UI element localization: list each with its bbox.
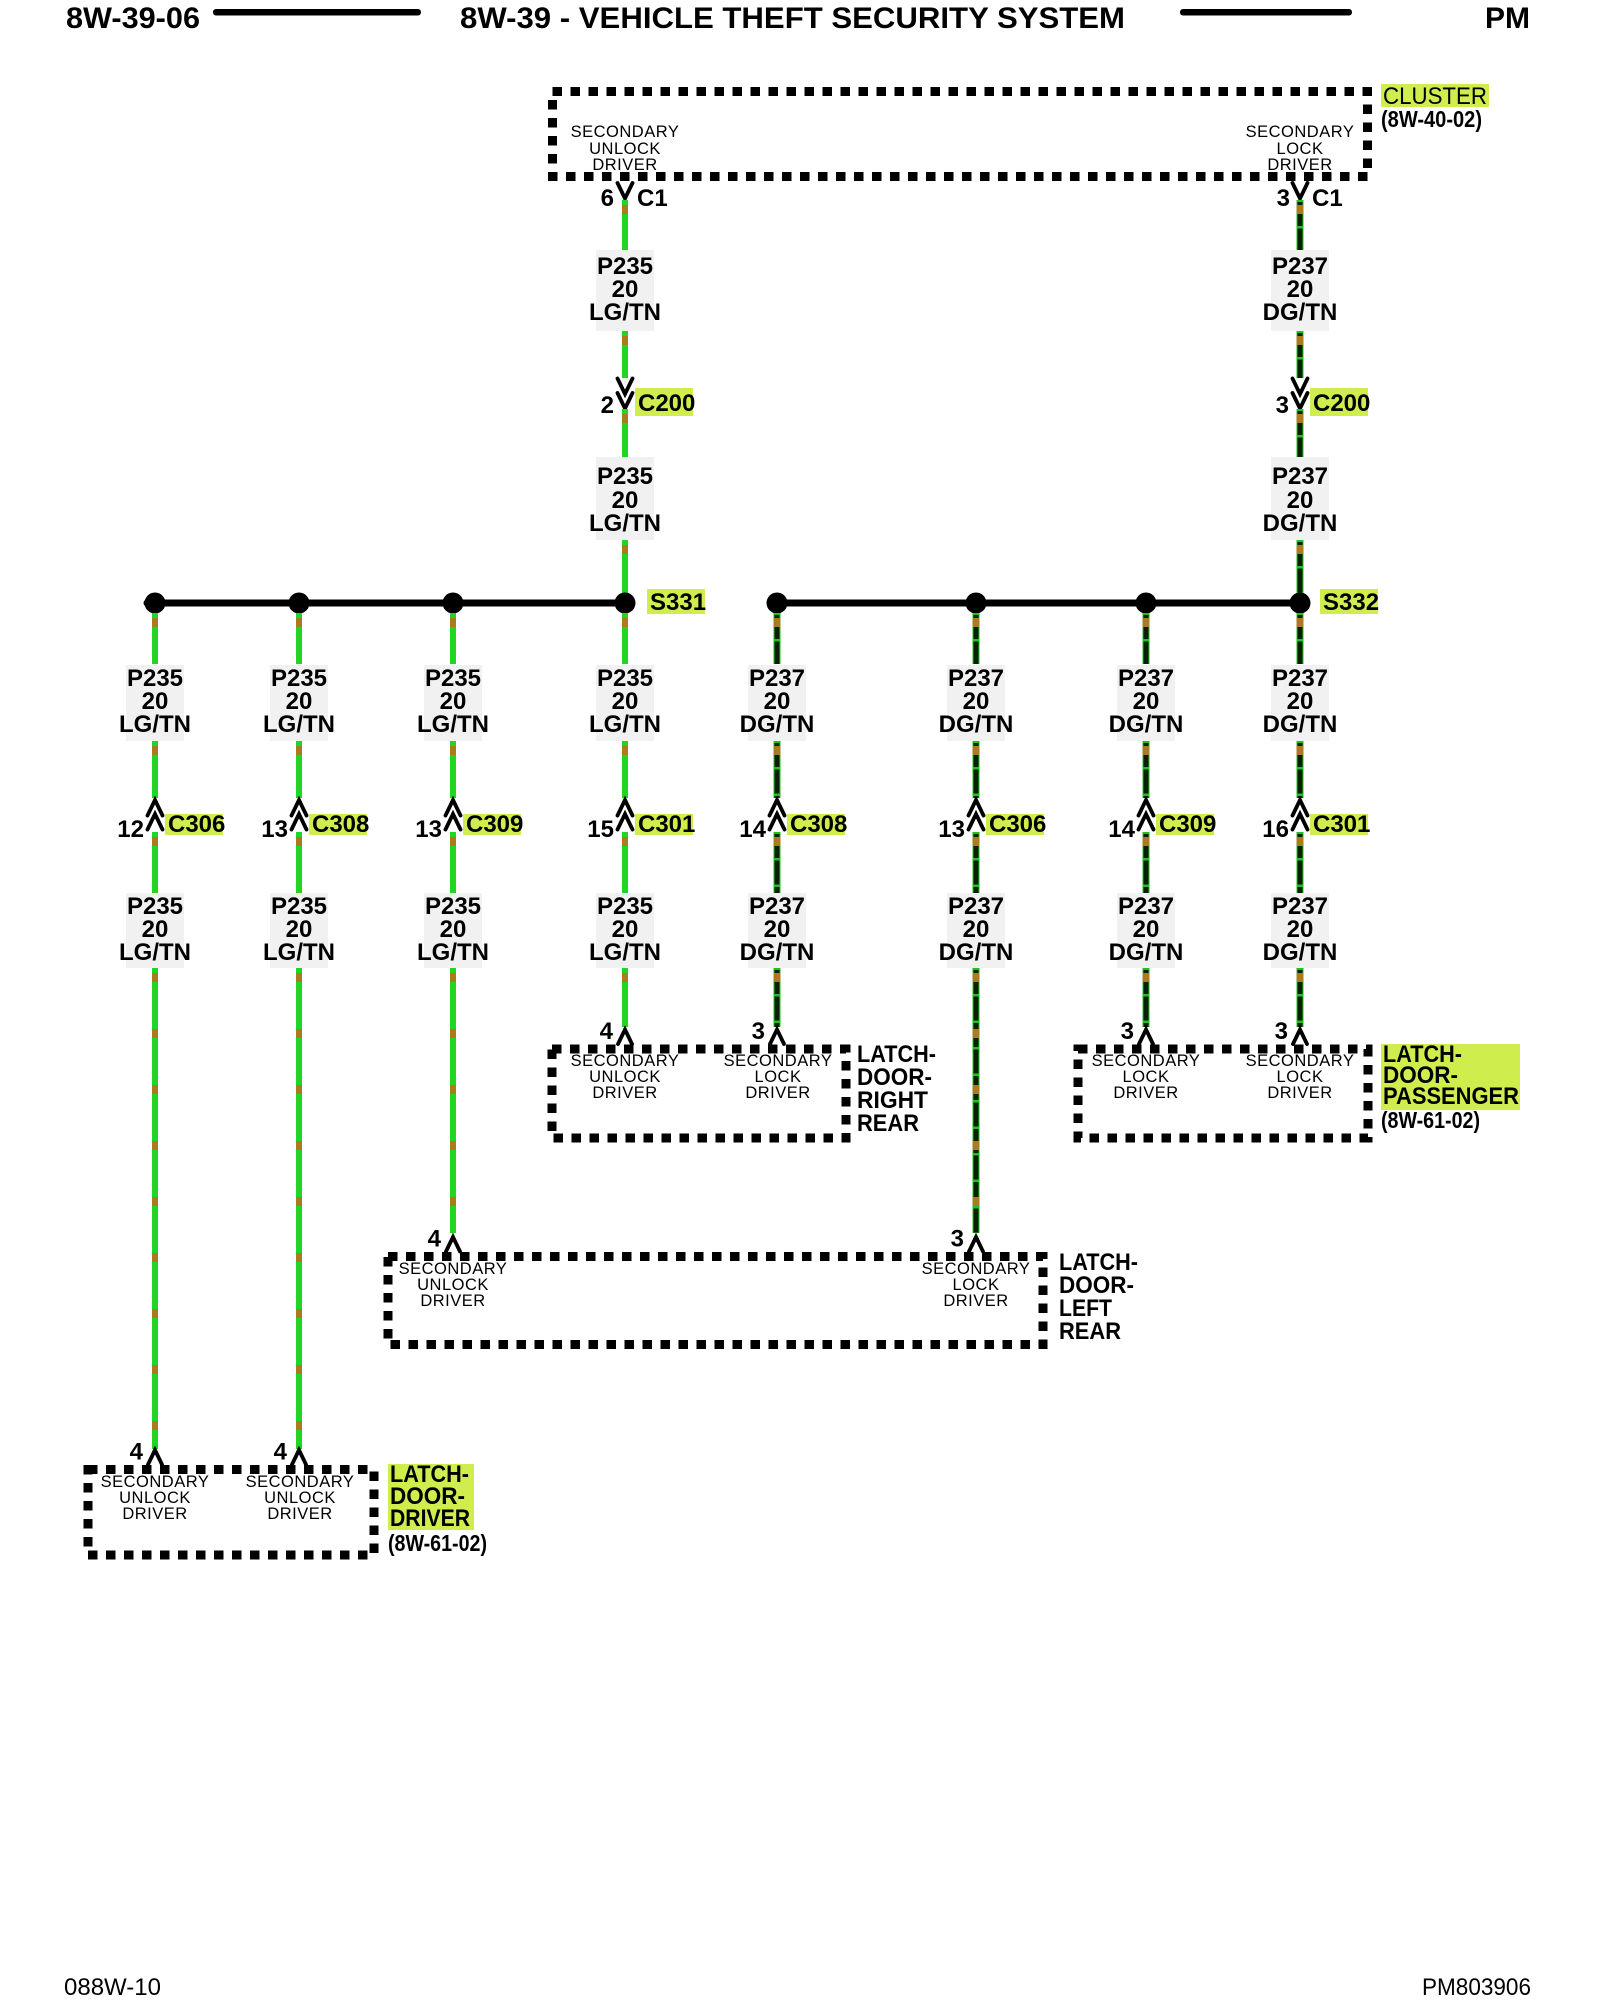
svg-text:LG/TN: LG/TN — [119, 939, 191, 966]
wire P235 drop 1 mid (LG/TN) — [152, 741, 158, 798]
in-line connector C308 pin 13 — [261, 800, 369, 843]
svg-text:DG/TN: DG/TN — [939, 939, 1014, 966]
wire label P237 20 DG/TN col5 (3) — [740, 665, 815, 741]
svg-text:LG/TN: LG/TN — [589, 939, 661, 966]
wire label P235 20 LG/TN col3 (3) — [417, 665, 489, 741]
svg-text:LG/TN: LG/TN — [263, 939, 335, 966]
svg-text:3: 3 — [1275, 1018, 1288, 1045]
wire label P235 20 LG/TN (2) — [589, 457, 661, 540]
svg-text:C309: C309 — [1159, 811, 1216, 838]
svg-text:SECONDARY: SECONDARY — [571, 123, 680, 141]
connector pin 3 into latch door passenger — [1275, 1018, 1307, 1045]
wire P237 drop 4 lower (DG/TN) — [1297, 832, 1304, 893]
in-line connector C306 pin 12 — [117, 800, 225, 843]
svg-text:LG/TN: LG/TN — [417, 939, 489, 966]
svg-text:2: 2 — [601, 392, 614, 419]
wire P235 drop 4 upper (LG/TN) — [622, 613, 628, 664]
connector pin 3 into latch door right rear — [752, 1018, 784, 1045]
svg-text:C301: C301 — [638, 811, 695, 838]
splice S331 — [145, 589, 707, 616]
connector pin 3 into latch door left rear — [951, 1226, 983, 1253]
svg-text:LG/TN: LG/TN — [417, 711, 489, 738]
svg-text:DRIVER: DRIVER — [592, 156, 657, 174]
wire label P235 20 LG/TN col4 (3) — [589, 665, 661, 741]
svg-text:C309: C309 — [466, 811, 523, 838]
wire P235 drop 4 mid (LG/TN) — [622, 741, 628, 798]
wire label P235 20 LG/TN col3 (4) — [417, 893, 489, 968]
wire P235 to C200 (LG/TN) — [622, 331, 628, 378]
connector C1 pin 6 — [601, 183, 668, 212]
box text lr secondary unlock driver — [399, 1260, 508, 1310]
svg-text:8W-39-06: 8W-39-06 — [66, 2, 200, 35]
connector pin 4 into latch door driver — [130, 1439, 162, 1466]
connector pin 4 into latch door driver — [274, 1439, 306, 1466]
LATCH-DOOR-RIGHT REAR box — [552, 1049, 846, 1138]
svg-text:REAR: REAR — [1059, 1318, 1121, 1345]
wire label P237 20 DG/TN col8 (3) — [1263, 665, 1338, 741]
label LATCH-DOOR-RIGHT REAR — [857, 1041, 936, 1137]
wire P237 drop 2 mid (DG/TN) — [973, 741, 980, 798]
wire P237 drop 3 upper (DG/TN) — [1143, 613, 1150, 664]
wire P235 drop 4 lower (LG/TN) — [622, 832, 628, 893]
wire label P237 20 DG/TN col7 (3) — [1109, 665, 1184, 741]
wire P235 drop 1 upper (LG/TN) — [152, 613, 158, 664]
svg-text:13: 13 — [938, 816, 965, 843]
wire label P237 20 DG/TN col6 (3) — [939, 665, 1014, 741]
box text cluster secondary unlock driver — [571, 123, 680, 174]
wire P237 tail to latch door left rear (DG/TN) — [973, 968, 980, 1233]
svg-text:DRIVER: DRIVER — [1113, 1084, 1178, 1102]
wire P237 drop 4 upper (DG/TN) — [1297, 613, 1304, 664]
wire label P235 20 LG/TN col1 (4) — [119, 893, 191, 968]
svg-text:13: 13 — [415, 816, 442, 843]
svg-text:3: 3 — [1276, 392, 1289, 419]
wire label P237 20 DG/TN (2) — [1263, 457, 1338, 540]
wire P235 from C200 (LG/TN) — [622, 409, 628, 457]
wire P235 tail to latch door left rear (LG/TN) — [450, 968, 456, 1233]
svg-text:(8W-61-02): (8W-61-02) — [388, 1530, 487, 1556]
wire P237 from C1 (DG/TN) — [1297, 200, 1304, 250]
svg-text:REAR: REAR — [857, 1110, 919, 1137]
svg-text:DRIVER: DRIVER — [390, 1505, 470, 1532]
wire P235 tail to latch door right rear (LG/TN) — [622, 968, 628, 1027]
wire P235 drop 3 lower (LG/TN) — [450, 832, 456, 893]
wire P237 drop 2 lower (DG/TN) — [973, 832, 980, 893]
svg-text:S332: S332 — [1323, 589, 1379, 616]
in-line connector C301 pin 15 — [587, 800, 695, 843]
LATCH-DOOR-PASSENGER box — [1078, 1049, 1368, 1138]
wire label P235 20 LG/TN (1) — [589, 250, 661, 331]
in-line connector C306 pin 13 — [938, 800, 1046, 843]
svg-text:C1: C1 — [637, 185, 668, 212]
wire P237 tail to latch door right rear (DG/TN) — [774, 968, 781, 1027]
connector pin 4 into latch door left rear — [428, 1226, 460, 1253]
module label CLUSTER — [1381, 83, 1489, 110]
svg-text:C1: C1 — [1312, 185, 1343, 212]
wire label P237 20 DG/TN col7 (4) — [1109, 893, 1184, 968]
wire P237 to C200 (DG/TN) — [1297, 331, 1304, 378]
LATCH-DOOR-DRIVER box — [88, 1470, 374, 1556]
svg-text:DG/TN: DG/TN — [740, 939, 815, 966]
svg-text:DG/TN: DG/TN — [939, 711, 1014, 738]
box text drv secondary unlock driver 1 — [101, 1473, 210, 1523]
svg-text:PM: PM — [1485, 2, 1530, 35]
svg-text:14: 14 — [1108, 816, 1135, 843]
box text rr secondary unlock driver — [571, 1052, 680, 1102]
wire P235 drop 1 lower (LG/TN) — [152, 832, 158, 893]
wire label P237 20 DG/TN col5 (4) — [740, 893, 815, 968]
svg-text:C301: C301 — [1313, 811, 1370, 838]
wire P237 drop 4 mid (DG/TN) — [1297, 741, 1304, 798]
svg-text:DG/TN: DG/TN — [1263, 711, 1338, 738]
in-line connector C309 pin 13 — [415, 800, 523, 843]
splice S332 — [767, 589, 1380, 616]
header rule right — [1180, 9, 1352, 16]
svg-text:C200: C200 — [1313, 390, 1370, 417]
wire P237 tail to latch door passenger (1) (DG/TN) — [1143, 968, 1150, 1027]
wire P235 drop 3 upper (LG/TN) — [450, 613, 456, 664]
svg-text:SECONDARY: SECONDARY — [1246, 123, 1355, 141]
svg-text:DRIVER: DRIVER — [420, 1292, 485, 1310]
wire P237 drop 3 mid (DG/TN) — [1143, 741, 1150, 798]
label LATCH-DOOR-DRIVER — [388, 1461, 474, 1532]
svg-text:DG/TN: DG/TN — [1263, 299, 1338, 326]
wire P237 drop 1 upper (DG/TN) — [774, 613, 781, 664]
wire P235 from C1 (LG/TN) — [622, 200, 628, 250]
svg-text:PM803906: PM803906 — [1422, 1974, 1531, 2000]
svg-text:LG/TN: LG/TN — [263, 711, 335, 738]
wire label P235 20 LG/TN col2 (3) — [263, 665, 335, 741]
wire label P235 20 LG/TN col4 (4) — [589, 893, 661, 968]
svg-text:(8W-61-02): (8W-61-02) — [1381, 1107, 1480, 1133]
wire label P237 20 DG/TN col8 (4) — [1263, 893, 1338, 968]
svg-text:C306: C306 — [168, 811, 225, 838]
box text lr secondary lock driver — [922, 1260, 1031, 1310]
wire label P235 20 LG/TN col2 (4) — [263, 893, 335, 968]
svg-text:P237: P237 — [1272, 463, 1328, 490]
svg-text:DG/TN: DG/TN — [740, 711, 815, 738]
wire label P237 20 DG/TN col6 (4) — [939, 893, 1014, 968]
svg-text:4: 4 — [130, 1439, 144, 1466]
LATCH-DOOR-LEFT REAR box — [388, 1257, 1043, 1345]
wire P235 drop 2 upper (LG/TN) — [296, 613, 302, 664]
wire P235 tail to latch door driver (1) (LG/TN) — [152, 968, 158, 1449]
label LATCH-DOOR-PASSENGER — [1381, 1041, 1520, 1110]
svg-text:3: 3 — [1121, 1018, 1134, 1045]
in-line connector C200 pin 2 — [601, 379, 696, 420]
box text pass secondary lock driver 1 — [1092, 1052, 1201, 1102]
svg-text:DG/TN: DG/TN — [1109, 939, 1184, 966]
svg-text:DG/TN: DG/TN — [1263, 939, 1338, 966]
svg-text:C308: C308 — [312, 811, 369, 838]
svg-text:3: 3 — [1277, 185, 1290, 212]
svg-text:DG/TN: DG/TN — [1109, 711, 1184, 738]
svg-text:DRIVER: DRIVER — [122, 1505, 187, 1523]
svg-text:3: 3 — [951, 1226, 964, 1253]
in-line connector C301 pin 16 — [1262, 800, 1370, 843]
wire P237 drop 1 lower (DG/TN) — [774, 832, 781, 893]
svg-text:4: 4 — [600, 1018, 614, 1045]
box text cluster secondary lock driver — [1246, 123, 1355, 174]
svg-text:12: 12 — [117, 816, 144, 843]
svg-text:DRIVER: DRIVER — [1267, 1084, 1332, 1102]
wire P237 drop 3 lower (DG/TN) — [1143, 832, 1150, 893]
svg-text:LG/TN: LG/TN — [589, 711, 661, 738]
svg-text:DRIVER: DRIVER — [943, 1292, 1008, 1310]
header rule left — [213, 9, 421, 16]
wire P235 tail to latch door driver (2) (LG/TN) — [296, 968, 302, 1449]
svg-text:C200: C200 — [638, 390, 695, 417]
module CLUSTER box — [553, 92, 1368, 177]
wire P237 drop 1 mid (DG/TN) — [774, 741, 781, 798]
svg-text:13: 13 — [261, 816, 288, 843]
svg-text:C306: C306 — [989, 811, 1046, 838]
connector C1 pin 3 — [1277, 183, 1343, 212]
svg-text:4: 4 — [428, 1226, 442, 1253]
wire label P235 20 LG/TN col1 (3) — [119, 665, 191, 741]
wire P237 tail to latch door passenger (2) (DG/TN) — [1297, 968, 1304, 1027]
wire P237 to S332 (DG/TN) — [1297, 540, 1304, 594]
svg-text:4: 4 — [274, 1439, 288, 1466]
box text drv secondary unlock driver 2 — [246, 1473, 355, 1523]
label LATCH-DOOR-LEFT REAR — [1059, 1249, 1138, 1345]
box text rr secondary lock driver — [724, 1052, 833, 1102]
svg-text:S331: S331 — [650, 589, 706, 616]
in-line connector C309 pin 14 — [1108, 800, 1216, 843]
svg-text:DRIVER: DRIVER — [1267, 156, 1332, 174]
connector pin 4 into latch door right rear — [600, 1018, 632, 1045]
wire label P237 20 DG/TN (1) — [1263, 250, 1338, 331]
wire P235 drop 2 lower (LG/TN) — [296, 832, 302, 893]
svg-text:3: 3 — [752, 1018, 765, 1045]
in-line connector C308 pin 14 — [739, 800, 847, 843]
wire P235 drop 3 mid (LG/TN) — [450, 741, 456, 798]
wire P237 drop 2 upper (DG/TN) — [973, 613, 980, 664]
wire P235 drop 2 mid (LG/TN) — [296, 741, 302, 798]
svg-text:DG/TN: DG/TN — [1263, 510, 1338, 537]
svg-text:LG/TN: LG/TN — [589, 510, 661, 537]
box text pass secondary lock driver 2 — [1246, 1052, 1355, 1102]
connector pin 3 into latch door passenger — [1121, 1018, 1153, 1045]
svg-text:DRIVER: DRIVER — [745, 1084, 810, 1102]
svg-text:DRIVER: DRIVER — [592, 1084, 657, 1102]
svg-text:LG/TN: LG/TN — [119, 711, 191, 738]
svg-text:DRIVER: DRIVER — [267, 1505, 332, 1523]
svg-text:8W-39 - VEHICLE THEFT SECURITY: 8W-39 - VEHICLE THEFT SECURITY SYSTEM — [460, 2, 1125, 35]
svg-text:LG/TN: LG/TN — [589, 299, 661, 326]
svg-text:P235: P235 — [597, 463, 653, 490]
wire P237 from C200 (DG/TN) — [1297, 409, 1304, 457]
wire P235 to S331 (LG/TN) — [622, 540, 628, 594]
svg-text:15: 15 — [587, 816, 614, 843]
svg-text:6: 6 — [601, 185, 614, 212]
svg-text:16: 16 — [1262, 816, 1289, 843]
svg-text:(8W-40-02): (8W-40-02) — [1381, 106, 1482, 132]
svg-text:C308: C308 — [790, 811, 847, 838]
svg-text:PASSENGER: PASSENGER — [1383, 1083, 1519, 1110]
svg-text:088W-10: 088W-10 — [64, 1974, 161, 2000]
svg-text:14: 14 — [739, 816, 766, 843]
in-line connector C200 pin 3 — [1276, 379, 1371, 420]
